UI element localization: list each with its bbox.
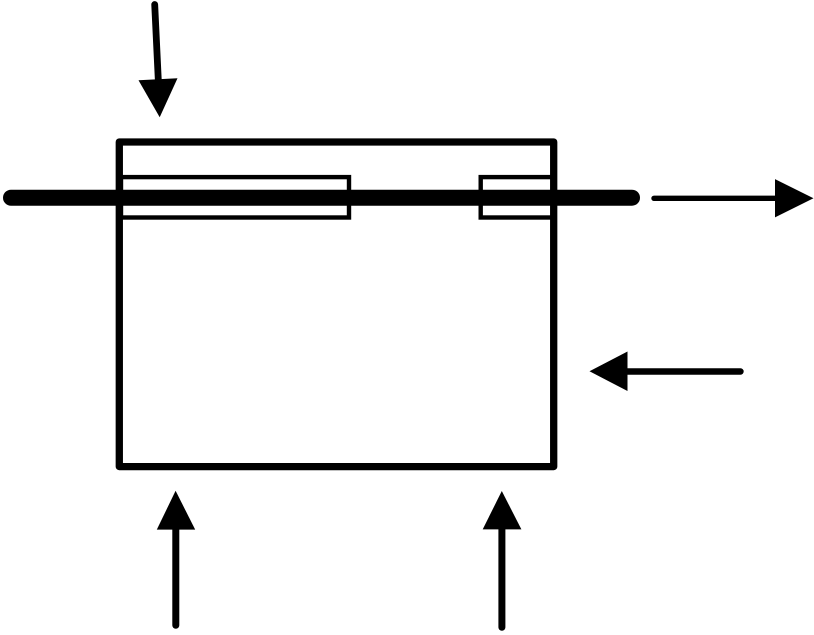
bottom arrow 1 shaft (upward force left) — [172, 527, 179, 625]
top arrow head — [139, 78, 178, 117]
thick strip (workpiece passing through box) — [11, 190, 632, 206]
left arrow shaft (inward force at right side) — [627, 368, 741, 374]
inner rectangle left (long guide slot) — [121, 177, 349, 217]
top arrow shaft (downward force) — [155, 5, 159, 81]
bottom arrow 2 head — [483, 491, 522, 529]
right arrow head — [775, 179, 814, 217]
inner rectangle right (short guide slot) — [481, 177, 554, 217]
left arrow head — [590, 352, 628, 392]
bottom arrow 2 shaft (upward force right) — [498, 527, 505, 627]
outer box (device housing) — [119, 142, 553, 467]
bottom arrow 1 head — [157, 491, 195, 530]
right arrow shaft (strip exit direction) — [654, 196, 780, 201]
